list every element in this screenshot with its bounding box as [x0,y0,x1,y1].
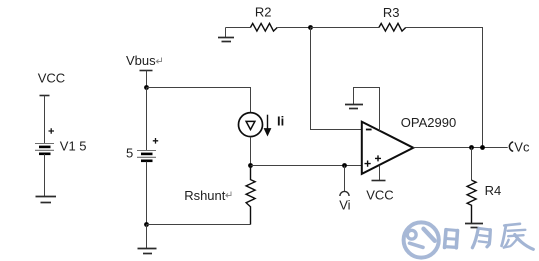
wire node D down to op-amp minus input [311,28,362,130]
wire top ground to R2 [226,27,251,29]
wire node B to ground [146,225,148,249]
watermark logo ring [404,222,439,257]
node C junction dot (Rshunt top) [248,163,253,168]
op-amp U1 bottom supply tick [372,180,386,182]
watermark glyph YUE (moon) [472,228,490,247]
ground (under R4) [465,224,483,228]
wire node F to terminal Vi [344,166,346,192]
wire node D to R3 [311,27,379,29]
resistor Rshunt return-mark glyph [226,192,231,198]
svg-text:R4: R4 [485,183,502,198]
op-amp U1 top supply stub to ground [354,88,380,131]
resistor Rshunt [246,166,255,225]
wire op-amp output to terminal Vc [413,147,507,149]
svg-text:VCC: VCC [38,70,65,85]
op-amp U1 minus input sign [366,129,372,131]
resistor R4 [467,180,476,223]
node E junction dot (R4 tap) [469,145,474,150]
svg-text:Vc: Vc [514,140,530,155]
wire battery V1 to ground [44,154,46,197]
wire R3 to right corner down to output node [406,28,483,148]
node G junction dot (feedback column) [480,145,485,150]
current source Ii arrow [264,115,270,136]
node F junction dot (Vi tap) [342,163,347,168]
svg-text:VCC: VCC [366,187,393,202]
battery V1 plates [35,144,54,154]
wire bottom rail node B to Rshunt [147,224,251,226]
battery V5 plus sign [153,138,158,144]
ground (bottom middle) [138,249,157,254]
power terminal VCC bar (left) [40,95,50,97]
svg-text:5: 5 [126,146,133,161]
wire battery V5 to node B [146,162,148,225]
wire VCC bar to battery V1 [44,96,46,144]
watermark glyph RI (sun) [445,230,458,248]
resistor R2 [250,23,277,31]
op-amp U1 triangle [362,122,414,174]
wire Vbus bar to node A [146,71,148,88]
node D junction dot (feedback node) [308,25,313,30]
current source Ii circle [239,113,263,137]
watermark logo inner ring [407,230,416,239]
watermark logo slash [424,229,435,241]
watermark glyph CHEN (dragon) [502,224,534,250]
terminal Vbus return-mark glyph [156,58,161,64]
watermark logo tail [410,243,424,247]
ground (op-amp top supply) [345,105,363,109]
op-amp U1 plus supply sign [375,155,381,161]
terminal Vi arc [340,191,349,196]
wire node E down to R4 [471,148,473,181]
svg-text:OPA2990: OPA2990 [401,115,456,130]
svg-text:V1 5: V1 5 [60,139,87,154]
ground (top, near R2) [218,28,234,42]
svg-text:Vi: Vi [339,197,350,212]
svg-text:Ii: Ii [277,114,284,129]
op-amp U1 plus input sign [365,161,371,167]
battery V5 plates [137,151,156,161]
wire R2 to node D [277,27,310,29]
svg-text:Vbus: Vbus [126,53,156,68]
wire current source to node C [250,137,252,166]
battery V1 plus sign [49,128,55,134]
wire node C to op-amp plus input [251,165,362,167]
ground (left, under V1) [36,197,57,203]
resistor R3 [379,23,406,31]
svg-text:R3: R3 [383,5,400,20]
wire node A to current source (top rail) [147,88,251,113]
svg-text:R2: R2 [255,5,272,20]
terminal Vc arc [509,142,513,151]
wire node A down to battery V5 [146,88,148,151]
node A junction dot (Vbus rail) [144,85,149,90]
terminal Vbus bar [140,70,153,72]
op-amp U1 bottom supply stub [379,166,381,181]
node B junction dot (bottom rail) [144,222,149,227]
current source Ii internal triangle [246,121,255,129]
svg-text:Rshunt: Rshunt [184,188,226,203]
